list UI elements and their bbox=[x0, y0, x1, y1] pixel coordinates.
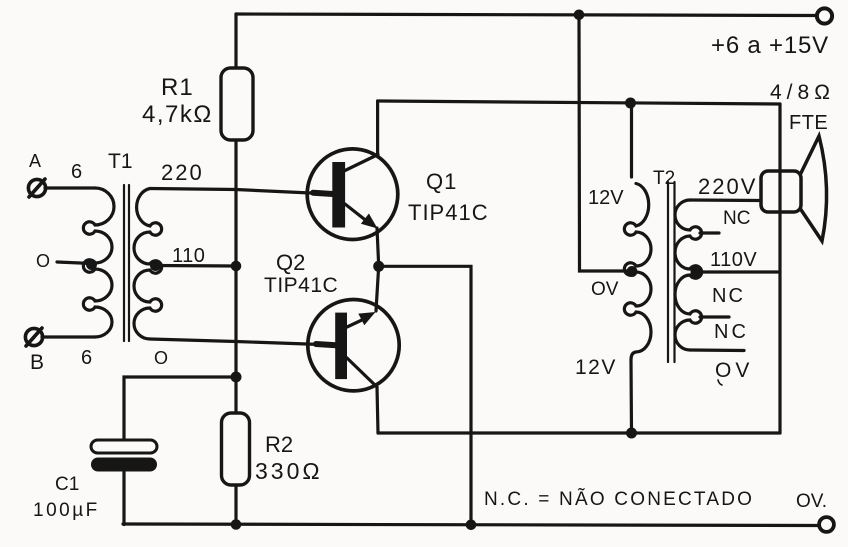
svg-text:220V: 220V bbox=[698, 174, 757, 199]
wire speaker vertical branch bbox=[778, 104, 781, 433]
transformer T1 secondary winding bbox=[134, 189, 162, 340]
svg-text:110: 110 bbox=[172, 245, 205, 267]
svg-text:T2: T2 bbox=[653, 168, 675, 189]
junction dot 110 tap at winding bbox=[150, 260, 161, 271]
transformer T1 primary winding bbox=[83, 188, 114, 337]
junction dot 110V tap bbox=[691, 267, 702, 278]
wire bottom 0V rail bbox=[123, 524, 818, 526]
wire top +V rail bbox=[236, 14, 816, 16]
wire T1 winding to terminal B bbox=[42, 335, 95, 338]
svg-text:6: 6 bbox=[71, 161, 82, 183]
wire Q1 emitter to junction bbox=[377, 228, 379, 266]
svg-text:12V: 12V bbox=[588, 187, 624, 209]
transformer T2 primary winding bbox=[624, 184, 651, 361]
speaker cone bbox=[801, 136, 827, 241]
junction dot T2 0V tap bbox=[627, 266, 638, 277]
wire 110V tap bbox=[698, 270, 780, 273]
svg-text:TIP41C: TIP41C bbox=[264, 274, 338, 297]
stub NC 2 bbox=[700, 315, 729, 318]
svg-text:220: 220 bbox=[161, 160, 204, 185]
terminal A bbox=[28, 179, 45, 197]
wire NC bottom lead bbox=[690, 348, 744, 352]
svg-text:Q2: Q2 bbox=[276, 250, 305, 275]
transformer T2 secondary winding bbox=[675, 200, 702, 350]
svg-text:NC: NC bbox=[714, 321, 749, 343]
wire 110 tap to bus bbox=[155, 264, 236, 268]
wire main left vertical bus bbox=[234, 14, 237, 525]
junction dot T1 center tap bbox=[86, 259, 97, 270]
wire 220 tap to Q1 base bbox=[150, 189, 332, 195]
junction dot C1 branch bbox=[231, 372, 242, 383]
svg-text:100µF: 100µF bbox=[33, 500, 100, 521]
svg-text:+6 a +15V: +6 a +15V bbox=[711, 32, 829, 59]
wire Q1 collector up bbox=[376, 101, 379, 155]
junction dot bottom rail at R2 bbox=[231, 519, 242, 530]
terminal B bbox=[25, 328, 42, 346]
wire 0 tap to Q2 base bbox=[150, 339, 335, 345]
junction dot T2 primary bottom bbox=[626, 428, 637, 439]
svg-text:A: A bbox=[29, 151, 41, 171]
svg-text:12V: 12V bbox=[575, 356, 617, 379]
svg-text:4,7kΩ: 4,7kΩ bbox=[142, 101, 213, 128]
wire O center tap bbox=[57, 262, 92, 264]
svg-text:O: O bbox=[36, 251, 50, 271]
wire +V to T2 center tap bbox=[579, 15, 629, 271]
svg-text:NC: NC bbox=[723, 208, 750, 229]
wire C1 branch bbox=[124, 377, 236, 439]
svg-text:TIP41C: TIP41C bbox=[408, 200, 489, 225]
transistor Q1 bbox=[307, 149, 398, 240]
svg-text:OV: OV bbox=[715, 359, 753, 382]
wire junction to Q2 emitter bbox=[376, 266, 379, 311]
wire C1 bottom bbox=[122, 471, 125, 525]
terminal 0V bottom bbox=[819, 517, 834, 532]
svg-text:4/8Ω: 4/8Ω bbox=[770, 81, 835, 104]
transformer T1 core bbox=[124, 185, 129, 341]
resistor R2 bbox=[222, 413, 250, 485]
wire Q2 collector down bbox=[377, 387, 378, 433]
svg-text:OV: OV bbox=[591, 279, 619, 300]
svg-text:R2: R2 bbox=[265, 432, 293, 457]
resistor R1 bbox=[221, 68, 253, 140]
junction dot 110 tap at bus bbox=[231, 261, 242, 272]
transformer T2 core bbox=[668, 182, 675, 362]
terminal +V bbox=[817, 8, 832, 23]
wire Q2 collector horizontal bbox=[378, 431, 780, 434]
svg-text:OV.: OV. bbox=[796, 491, 827, 512]
junction dot T2 primary top bbox=[625, 98, 636, 109]
wire T2 primary bottom lead bbox=[629, 360, 633, 433]
svg-text:Q1: Q1 bbox=[426, 169, 457, 194]
svg-text:6: 6 bbox=[81, 347, 92, 369]
svg-text:C1: C1 bbox=[55, 474, 79, 495]
svg-text:330Ω: 330Ω bbox=[255, 458, 323, 484]
svg-text:110V: 110V bbox=[710, 249, 757, 271]
capacitor C1 bottom plate bbox=[91, 458, 157, 472]
svg-text:O: O bbox=[154, 348, 168, 368]
svg-text:R1: R1 bbox=[161, 74, 194, 101]
junction dot top rail bbox=[574, 10, 585, 21]
svg-text:B: B bbox=[30, 351, 44, 374]
svg-text:FTE: FTE bbox=[789, 112, 828, 134]
stub NC 1 bbox=[700, 231, 719, 234]
wire T2 primary top lead bbox=[630, 104, 633, 178]
transistor Q2 bbox=[308, 300, 399, 391]
svg-text:N.C. = NÃO CONECTADO: N.C. = NÃO CONECTADO bbox=[484, 488, 754, 510]
speaker FTE box bbox=[761, 171, 801, 212]
capacitor C1 top plate bbox=[91, 440, 157, 453]
junction dot bottom rail at emitter bus bbox=[466, 520, 477, 531]
svg-text:NC: NC bbox=[712, 285, 745, 307]
tick under OV bbox=[718, 380, 722, 385]
wire collector rail to speaker bbox=[378, 101, 780, 104]
wire emitter junction to 0V rail bbox=[379, 266, 471, 524]
svg-text:T1: T1 bbox=[108, 150, 133, 173]
wire 220V tap to speaker bbox=[690, 198, 760, 202]
wire terminal A to T1 bbox=[45, 186, 95, 189]
junction dot emitters bbox=[373, 261, 384, 272]
